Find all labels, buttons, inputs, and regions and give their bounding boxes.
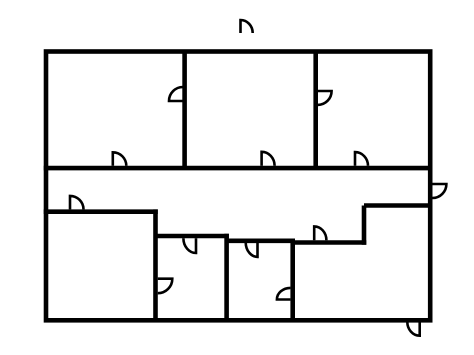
wall: room3 top [227,239,295,244]
door M (room3, on its right wall, opens up-left) [277,288,291,300]
door E (top-middle room, on corridor wall, opens up-right) [262,152,275,166]
door K (room2, on bottom-left room right wall, opens down-right) [158,279,173,294]
door F (top-right room, on corridor wall, opens up-right) [355,152,368,166]
door D (top-left room, on corridor wall, opens up-right) [113,152,127,166]
wall: top-row divider 1 [182,52,187,169]
wall: outer perimeter [46,52,430,321]
door N (outside below bottom wall, right side, opens down-left) [407,322,419,336]
wall: corridor (full width horizontal) [44,166,433,171]
door A (floating above top wall, center) [241,20,253,33]
door H (corridor, on bottom-left room top wall, opens up-right) [70,196,84,210]
wall: room4 step vertical [362,206,367,245]
door C (top-right room, on divider 2, opens down-right) [318,91,332,105]
wall: room2 right [224,234,229,321]
wall: room2 top [156,234,229,239]
door J (room2, below its top wall, opens down-left) [183,238,196,253]
wall: top-row divider 2 [313,52,318,169]
wall: bottom-left room right [153,209,158,320]
door G (outside right wall at corridor, opens down-right) [432,184,446,198]
wall: bottom-left room top [44,209,158,214]
wall: room4 top-right segment [364,203,430,208]
door B (top-left room, on divider 1, opens up-left) [169,87,183,101]
door L (room3, below its top wall, opens down-left) [246,242,258,257]
wall: room4 top-left segment [293,240,367,245]
door I (corridor, on room4 top-left wall, opens up-right) [314,226,326,240]
wall: room3 right [290,239,295,321]
